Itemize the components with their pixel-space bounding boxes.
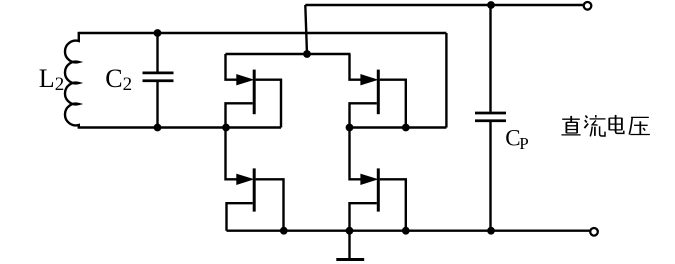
直 [561, 116, 580, 135]
transistor Q1 upper-left [226, 54, 282, 128]
transistor Q3 lower-left [226, 128, 284, 231]
node Q3 drain bottom [280, 227, 288, 235]
node left leg mid [222, 124, 230, 132]
terminal top output [584, 2, 592, 10]
node C2 bottom [154, 124, 162, 132]
node C2 top [154, 29, 162, 37]
流 [584, 115, 605, 136]
wire right leg mid rail [350, 126, 447, 128]
wire tank top rail [78, 32, 447, 34]
capacitor C2 [143, 32, 174, 129]
wire gate-node riser [305, 5, 307, 54]
label DC voltage (直流电压) drawn as strokes [561, 115, 650, 136]
wire bottom rail [227, 229, 591, 231]
node CP top [487, 1, 495, 9]
node ground junction [346, 227, 354, 235]
ground [336, 231, 364, 260]
capacitor CP [475, 4, 506, 232]
wire left leg mid rail [78, 126, 281, 128]
terminal bottom output [590, 228, 598, 236]
inductor L2 [65, 32, 79, 129]
node Q4 drain bottom [402, 227, 410, 235]
node CP bottom [487, 227, 495, 235]
wire top output wire [305, 4, 584, 6]
transistor Q4 lower-right [350, 128, 406, 231]
wire right leg top vertical [445, 33, 447, 128]
node right leg source mid [346, 124, 354, 132]
node right leg drain mid [402, 124, 410, 132]
node gate bus junction [303, 50, 311, 58]
wire gate bus [226, 53, 351, 55]
压 [629, 117, 650, 134]
transistor Q2 upper-right [350, 54, 406, 128]
电 [609, 115, 624, 133]
